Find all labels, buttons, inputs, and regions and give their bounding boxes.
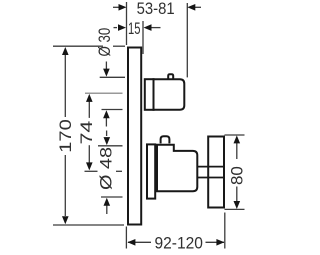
svg-text:170: 170 [56,119,75,153]
svg-text:Ø 30: Ø 30 [95,28,114,57]
svg-text:Ø 48: Ø 48 [96,147,115,190]
svg-text:92-120: 92-120 [154,233,203,250]
svg-text:80: 80 [228,166,247,185]
svg-text:53-81: 53-81 [137,0,175,18]
svg-text:74: 74 [77,121,96,145]
svg-text:15: 15 [128,19,141,38]
